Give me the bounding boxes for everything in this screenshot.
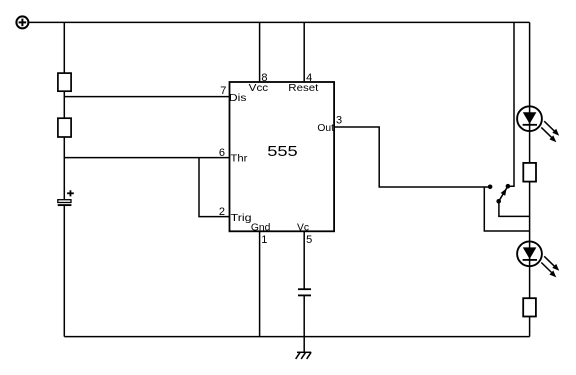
switch SW1 throw B contact bbox=[506, 184, 511, 189]
svg-text:6: 6 bbox=[219, 147, 225, 159]
wire R3 to LED D2 bbox=[529, 182, 531, 299]
wire Out branch down to LED junction bbox=[484, 187, 529, 231]
wire Thr (pin 6) bbox=[64, 157, 229, 159]
wire R1 to R2 bbox=[63, 91, 65, 118]
wire R2 to C1 bbox=[63, 137, 65, 199]
resistor R4 bbox=[523, 298, 536, 316]
svg-text:3: 3 bbox=[336, 114, 342, 126]
wire pin 4 Reset bbox=[303, 22, 305, 82]
wire pin 1 Gnd bbox=[259, 231, 261, 336]
wire switch common to LED junction bbox=[499, 201, 530, 216]
wire Out (pin 3) bbox=[334, 127, 490, 187]
resistor R3 bbox=[523, 163, 536, 182]
wire pin 5 to ground bbox=[303, 295, 305, 352]
wire Dis (pin 7) bbox=[64, 96, 229, 98]
svg-text:8: 8 bbox=[261, 72, 267, 84]
wire bottom rail bbox=[64, 336, 529, 338]
svg-text:Reset: Reset bbox=[288, 83, 318, 94]
svg-text:Vcc: Vcc bbox=[249, 83, 269, 94]
wire Trig loop (pin 2) bbox=[199, 158, 230, 217]
resistor R1 bbox=[58, 73, 71, 91]
svg-text:1: 1 bbox=[261, 234, 267, 246]
wire pin 8 Vcc bbox=[259, 22, 261, 82]
resistor R2 bbox=[58, 118, 71, 137]
svg-text:555: 555 bbox=[267, 144, 297, 160]
svg-text:Trig: Trig bbox=[231, 213, 252, 224]
switch SW1 throw A contact bbox=[488, 185, 493, 190]
supply + terminal bbox=[16, 16, 28, 28]
svg-text:Vc: Vc bbox=[297, 222, 309, 233]
svg-text:Dis: Dis bbox=[229, 93, 247, 104]
wire left vertical upper bbox=[63, 22, 65, 73]
wire pin 5 Vc upper bbox=[303, 231, 305, 289]
capacitor C2 bbox=[298, 289, 311, 295]
switch SW1 common contact bbox=[496, 199, 501, 204]
wire top rail to LED D1 bbox=[529, 22, 531, 163]
switch SW1 lever bbox=[499, 186, 508, 201]
wire C1 to bottom rail bbox=[63, 205, 65, 337]
LED D1 bbox=[517, 106, 559, 142]
svg-text:2: 2 bbox=[219, 206, 225, 218]
svg-text:5: 5 bbox=[306, 234, 312, 246]
LED D2 bbox=[517, 241, 559, 277]
svg-text:7: 7 bbox=[220, 85, 226, 97]
svg-text:4: 4 bbox=[306, 72, 312, 84]
wire top rail bbox=[28, 21, 529, 23]
svg-text:Thr: Thr bbox=[231, 154, 249, 165]
wire R4 to bottom rail bbox=[529, 317, 531, 337]
wire switch B to top rail bbox=[508, 22, 514, 186]
svg-text:Out: Out bbox=[317, 123, 334, 134]
svg-text:Gnd: Gnd bbox=[251, 222, 271, 233]
IC U1 555 timer box bbox=[230, 82, 335, 231]
ground bbox=[296, 352, 312, 359]
capacitor C1 (polarized) bbox=[58, 190, 74, 205]
